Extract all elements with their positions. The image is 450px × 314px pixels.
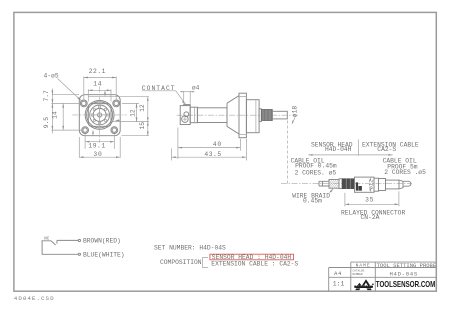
svg-text:H4D-04S: H4D-04S xyxy=(390,270,418,277)
dim 30 line xyxy=(79,156,120,158)
brown wire xyxy=(57,239,78,241)
brown terminal xyxy=(78,239,80,241)
switch common lead xyxy=(41,241,55,245)
centerline xyxy=(177,114,300,116)
svg-text:4D04E.CSD: 4D04E.CSD xyxy=(14,295,55,302)
dim 43.5 line xyxy=(172,156,247,158)
center boss outer circle xyxy=(85,101,114,130)
svg-text:ø18: ø18 xyxy=(291,106,298,118)
wire braid cylinder xyxy=(329,180,339,189)
svg-text:H4D-04H: H4D-04H xyxy=(325,146,352,153)
rear pin xyxy=(272,111,287,119)
sensor head arrow xyxy=(308,154,358,156)
contact bump on head xyxy=(184,105,191,106)
φ18 leader arrow xyxy=(292,118,295,124)
cable assembly centerline xyxy=(281,183,412,185)
svg-text:14: 14 xyxy=(93,81,102,88)
svg-text:COMPOSITION: COMPOSITION xyxy=(160,259,202,266)
φ12 tiny arrows xyxy=(369,189,371,192)
svg-text:ø4: ø4 xyxy=(192,85,200,92)
svg-text:TOOLSENSOR.COM: TOOLSENSOR.COM xyxy=(376,279,436,289)
right ext lines xyxy=(88,97,149,136)
dim 22.1 line xyxy=(84,77,116,79)
svg-text:12: 12 xyxy=(139,104,146,112)
svg-text:9.5: 9.5 xyxy=(43,117,50,129)
svg-text:CN-2A: CN-2A xyxy=(361,214,380,221)
svg-text:NUMBER: NUMBER xyxy=(353,273,363,276)
svg-text:2 CORES. ø5: 2 CORES. ø5 xyxy=(295,169,337,176)
dim 14 ext lines xyxy=(88,89,111,101)
svg-text:12: 12 xyxy=(130,109,137,117)
head big circle xyxy=(182,116,189,123)
dashed link line from pin end xyxy=(287,121,289,184)
inner square 14x14 xyxy=(88,104,111,127)
svg-text:TOOL SETTING PROBE: TOOL SETTING PROBE xyxy=(377,262,437,269)
svg-text:CA2-S: CA2-S xyxy=(377,146,396,153)
contact label underline+leader xyxy=(142,91,186,105)
svg-text:14: 14 xyxy=(51,111,58,119)
cable stub xyxy=(403,181,411,186)
step ring xyxy=(259,109,261,122)
dim 22.1 extension lines xyxy=(84,77,116,100)
contact ring circle xyxy=(93,108,106,121)
dim 14 line xyxy=(88,89,111,91)
collar xyxy=(190,107,197,123)
svg-text:BLUE(WHITE): BLUE(WHITE) xyxy=(83,251,125,258)
cone step xyxy=(227,96,239,134)
svg-text:40: 40 xyxy=(213,141,222,148)
left ext lines xyxy=(51,95,82,130)
φ4 ext lines xyxy=(184,91,191,104)
leader 4-φ5 xyxy=(58,79,82,101)
vertical centerline xyxy=(99,87,101,143)
middle circle xyxy=(90,105,110,125)
dim 19.1 ext lines xyxy=(85,134,114,149)
svg-text:30: 30 xyxy=(93,151,102,158)
svg-text:35: 35 xyxy=(365,197,374,204)
crosshair xyxy=(92,108,107,123)
svg-text:ø12: ø12 xyxy=(368,179,375,189)
svg-text:7.7: 7.7 xyxy=(43,90,50,102)
blue terminal xyxy=(78,253,80,255)
extension cable arrow xyxy=(359,154,393,156)
flange body (front view) xyxy=(79,95,120,136)
svg-text:EXTENSION CABLE : CA2-S: EXTENSION CABLE : CA2-S xyxy=(211,261,298,268)
red highlight box xyxy=(210,254,294,260)
inner small arrows xyxy=(104,92,106,96)
threaded section xyxy=(261,109,272,120)
dim 35 ext lines xyxy=(345,191,399,206)
dim 43.5 ext lines xyxy=(172,139,247,161)
φ4 dim line xyxy=(180,91,194,93)
right outer dim line 12/15 xyxy=(147,97,149,136)
svg-text:0.45m: 0.45m xyxy=(303,198,322,205)
contact pin ring xyxy=(92,106,109,124)
hole BL xyxy=(82,127,89,134)
center contact circle xyxy=(98,113,102,117)
svg-text:19.1: 19.1 xyxy=(88,142,105,149)
center boss outer circle 2 xyxy=(87,102,113,128)
right inner dim line 12 xyxy=(136,103,138,121)
wire braid leader xyxy=(330,189,334,193)
svg-text:A4: A4 xyxy=(334,270,342,277)
main body xyxy=(246,100,259,133)
svg-text:2 CORES .ø5: 2 CORES .ø5 xyxy=(384,169,426,176)
connector body xyxy=(355,177,375,192)
dim 19.1 line xyxy=(85,141,114,143)
svg-text:43.5: 43.5 xyxy=(204,151,221,158)
hole TR xyxy=(113,100,120,107)
head small circle xyxy=(184,112,189,117)
dim 40 line xyxy=(178,147,241,149)
dim 40 ext lines xyxy=(178,128,241,160)
rear smaller cylinder xyxy=(386,180,400,189)
step ring xyxy=(339,179,342,189)
svg-text:1:1: 1:1 xyxy=(333,281,345,288)
divider line xyxy=(358,140,360,156)
svg-text:22.1: 22.1 xyxy=(89,68,106,75)
rear cylinder xyxy=(379,179,386,191)
svg-text:BROWN(RED): BROWN(RED) xyxy=(83,238,121,245)
left outer dim line 7.7 / 9.5 xyxy=(51,89,53,134)
blue wire L xyxy=(42,241,78,255)
knurled rings (dark) xyxy=(342,178,355,189)
logo mountains xyxy=(354,279,373,290)
head block xyxy=(180,106,190,125)
svg-text:4-ø5: 4-ø5 xyxy=(44,72,59,79)
disc flange xyxy=(239,93,246,138)
dim 35 line xyxy=(345,203,399,205)
shaft xyxy=(197,108,227,123)
taper nub xyxy=(399,180,403,189)
svg-text:15: 15 xyxy=(139,122,146,130)
cable segment xyxy=(319,181,329,186)
svg-text:SET NUMBER: H4D-04S: SET NUMBER: H4D-04S xyxy=(154,245,226,252)
dim 30 ext lines xyxy=(79,137,120,158)
step section xyxy=(374,178,379,191)
keyway dark mark xyxy=(356,182,362,190)
horizontal centerline xyxy=(72,114,127,116)
title block grid xyxy=(329,262,437,291)
hole BR xyxy=(111,127,118,134)
switch contact tick xyxy=(56,240,58,243)
hole TL 4-φ5 xyxy=(80,100,87,107)
left inner dim line 14 xyxy=(62,103,64,130)
svg-text:NAME: NAME xyxy=(356,263,371,269)
bracket xyxy=(203,258,209,268)
